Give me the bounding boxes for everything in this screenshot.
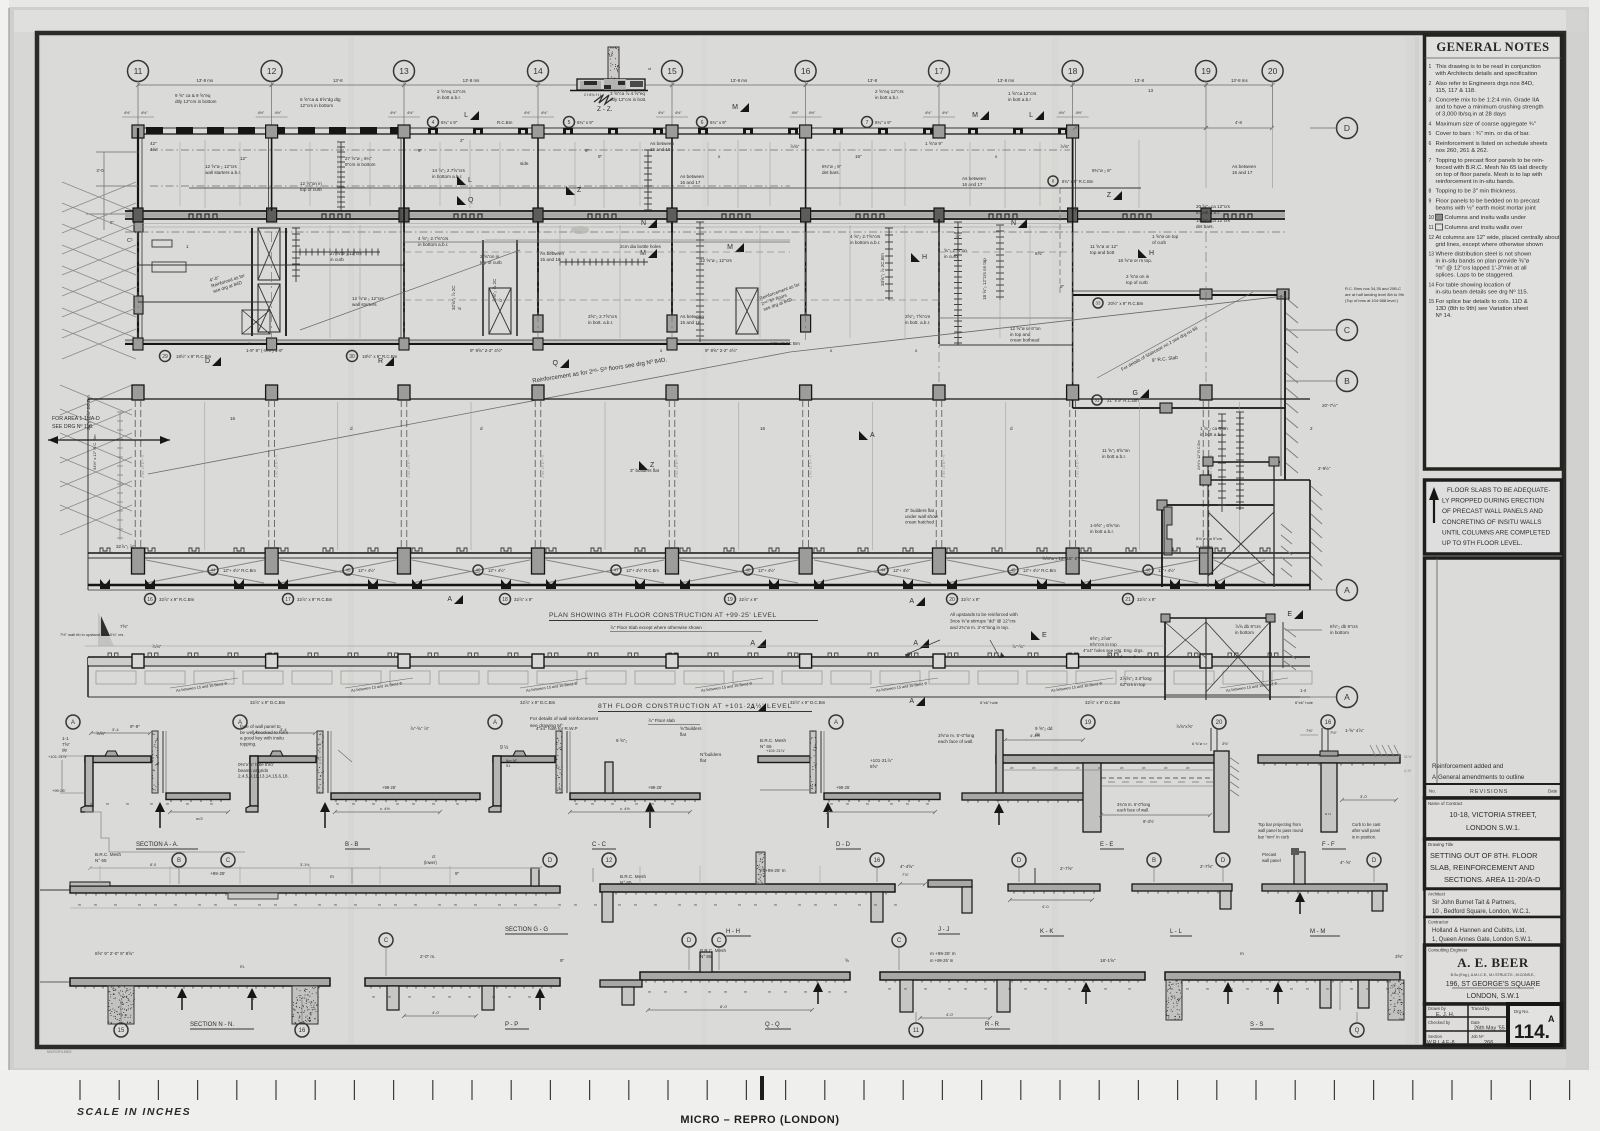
svg-text:12 ⅝"ø or 6"on: 12 ⅝"ø or 6"on <box>1010 326 1041 331</box>
columns on beam band <box>133 208 143 222</box>
svg-text:Columns and insitu walls over: Columns and insitu walls over <box>1445 225 1523 231</box>
svg-text:Top bar projecting from: Top bar projecting from <box>1258 822 1301 827</box>
svg-text:7⅝": 7⅝" <box>120 624 128 629</box>
svg-text:m: m <box>798 903 801 907</box>
grid bubble 19 <box>1196 61 1217 82</box>
svg-text:cb: cb <box>1054 766 1058 770</box>
section B-B drawing <box>246 727 480 828</box>
svg-text:m: m <box>372 995 375 999</box>
svg-text:m: m <box>874 903 877 907</box>
svg-text:9": 9" <box>598 154 603 159</box>
svg-text:a good key with insitu: a good key with insitu <box>240 736 284 741</box>
svg-text:5: 5 <box>1429 131 1432 137</box>
svg-text:13D (8th to 9th) see Variation: 13D (8th to 9th) see Variation sheet <box>1436 306 1529 312</box>
svg-text:3'-0: 3'-0 <box>96 168 104 173</box>
svg-text:Topping to precast floor panel: Topping to precast floor panels to be re… <box>1436 158 1544 164</box>
svg-text:15 and 16: 15 and 16 <box>540 257 561 262</box>
svg-text:in bott a.b.r.: in bott a.b.r. <box>437 95 461 100</box>
svg-text:7⅞": 7⅞" <box>902 872 910 877</box>
svg-text:18 ⅝"ø or rs top.: 18 ⅝"ø or rs top. <box>1118 258 1152 263</box>
for area note <box>52 416 100 430</box>
grid bubble 14 <box>528 61 549 82</box>
svg-text:4½": 4½" <box>1059 111 1066 115</box>
svg-text:D: D <box>1344 123 1350 133</box>
svg-text:Cover to bars : ¾" min. or dia: Cover to bars : ¾" min. or dia of bar. <box>1436 131 1531 137</box>
svg-text:m: m <box>438 903 441 907</box>
svg-text:L - L: L - L <box>1170 929 1182 935</box>
section A-A drawing <box>48 727 245 852</box>
svg-text:m: m <box>804 990 807 994</box>
grid bubble 44 <box>878 565 888 575</box>
grid bubble 33 <box>1093 298 1103 308</box>
svg-text:B.Sc.(Eng.), A.M.I.C.E., M.I.S: B.Sc.(Eng.), A.M.I.C.E., M.I.STRUCT.E., … <box>1451 973 1536 977</box>
svg-text:N° 65: N° 65 <box>700 954 712 959</box>
svg-text:m: m <box>594 903 597 907</box>
svg-text:20: 20 <box>1216 720 1223 726</box>
svg-text:+101·21⅞": +101·21⅞" <box>870 758 893 763</box>
svg-text:9": 9" <box>560 958 565 963</box>
svg-text:m: m <box>448 995 451 999</box>
section D-D drawing <box>758 731 940 828</box>
svg-text:m: m <box>114 903 117 907</box>
interior walls grids 14-16 <box>537 138 539 208</box>
svg-text:As between: As between <box>962 176 986 181</box>
grid bubble C <box>221 853 235 867</box>
svg-text:beams at grids: beams at grids <box>238 768 269 773</box>
svg-text:3'-1½: 3'-1½ <box>300 863 310 867</box>
svg-text:E. J. H.: E. J. H. <box>1436 1012 1455 1018</box>
svg-text:m: m <box>330 874 334 879</box>
svg-text:9" 9⅝" 2-2" 4½": 9" 9⅝" 2-2" 4½" <box>470 347 503 353</box>
svg-text:⅞": ⅞" <box>955 234 961 239</box>
grid bubble 4 <box>428 117 439 128</box>
svg-text:A: A <box>909 698 914 705</box>
svg-text:MICRO – REPRO (LONDON): MICRO – REPRO (LONDON) <box>680 1114 839 1126</box>
svg-text:11: 11 <box>913 1028 920 1034</box>
svg-text:H: H <box>1149 250 1154 257</box>
svg-text:For splice bar details to cols: For splice bar details to cols. 11D & <box>1436 299 1528 305</box>
svg-text:5: 5 <box>568 120 571 126</box>
svg-text:m: m <box>634 903 637 907</box>
svg-text:m/2: m/2 <box>196 816 203 821</box>
svg-text:32⅞" x 9" D.C.Bm: 32⅞" x 9" D.C.Bm <box>790 700 826 705</box>
svg-text:2cm dia bottle holes: 2cm dia bottle holes <box>620 244 662 249</box>
svg-text:A: A <box>493 720 497 726</box>
svg-text:4"-4⅝": 4"-4⅝" <box>900 864 914 869</box>
svg-text:2'-7⅝": 2'-7⅝" <box>1060 866 1073 871</box>
svg-text:m: m <box>906 802 909 806</box>
svg-text:m: m <box>834 903 837 907</box>
section J-J drawing <box>898 872 972 913</box>
svg-text:30: 30 <box>349 354 355 360</box>
svg-text:3⅝"₂ 2.7⅝"crs: 3⅝"₂ 2.7⅝"crs <box>588 314 618 319</box>
svg-text:Where distribution steel is no: Where distribution steel is not shown <box>1436 252 1532 258</box>
svg-text:2 no 16 b + ½: 2 no 16 b + ½ <box>809 454 813 478</box>
svg-text:cb: cb <box>1098 766 1102 770</box>
svg-text:m: m <box>888 987 891 991</box>
svg-text:11 ⅝"₂ 6⅝"on: 11 ⅝"₂ 6⅝"on <box>1102 448 1130 453</box>
section cut flag E <box>1287 610 1303 619</box>
svg-text:m: m <box>94 903 97 907</box>
svg-text:m: m <box>904 987 907 991</box>
grid bubble 44 <box>208 565 218 575</box>
svg-text:m: m <box>684 990 687 994</box>
grid bubble 46 <box>1143 565 1153 575</box>
svg-text:m: m <box>814 903 817 907</box>
svg-text:m: m <box>474 903 477 907</box>
svg-text:m: m <box>708 990 711 994</box>
svg-text:2 ⅝"ø on in: 2 ⅝"ø on in <box>1126 274 1150 279</box>
svg-text:B.R.C. Mesh: B.R.C. Mesh <box>95 852 121 857</box>
svg-text:m: m <box>492 995 495 999</box>
svg-text:13'-8 ms: 13'-8 ms <box>1231 78 1249 83</box>
svg-text:splices. Laps to be staggere: splices. Laps to be staggered. <box>1436 273 1515 279</box>
svg-text:m.: m. <box>240 964 245 969</box>
svg-text:Topping to be 3" min thickness: Topping to be 3" min thickness. <box>1436 189 1518 195</box>
svg-text:SECTION N - N.: SECTION N - N. <box>190 1022 234 1028</box>
svg-text:1: 1 <box>186 244 189 249</box>
svg-text:CONCRETING OF INSITU WALLS: CONCRETING OF INSITU WALLS <box>1442 519 1542 526</box>
small stub pairs above band <box>100 548 110 553</box>
svg-text:12"+ 4½": 12"+ 4½" <box>358 568 376 573</box>
svg-text:UNTIL COLUMNS ARE COMPLETED: UNTIL COLUMNS ARE COMPLETED <box>1442 529 1550 536</box>
svg-text:m: m <box>1306 987 1309 991</box>
svg-text:⅞" Floor slab: ⅞" Floor slab <box>648 718 675 723</box>
support arrow <box>535 988 545 998</box>
svg-text:de: de <box>1035 732 1041 737</box>
svg-text:9": 9" <box>455 871 460 876</box>
section cut flag Q <box>553 359 569 368</box>
svg-text:m: m <box>714 903 717 907</box>
svg-text:4 ⅝"₂ 2.7⅝"crs: 4 ⅝"₂ 2.7⅝"crs <box>850 234 881 239</box>
svg-text:M: M <box>727 244 733 251</box>
svg-text:16: 16 <box>801 66 811 76</box>
svg-text:12 ⅝"ø ₂ 12"crs: 12 ⅝"ø ₂ 12"crs <box>352 296 385 301</box>
extra clutter round 2 <box>150 141 158 152</box>
svg-text:m: m <box>924 987 927 991</box>
svg-text:FOR AREA 1-11/A-D: FOR AREA 1-11/A-D <box>52 416 100 422</box>
svg-text:Contractor: Contractor <box>1428 920 1449 925</box>
svg-text:+99·25': +99·25' <box>836 785 850 790</box>
svg-text:44: 44 <box>880 568 886 573</box>
svg-text:m: m <box>1326 987 1329 991</box>
svg-text:1-⅝" 4⅞": 1-⅝" 4⅞" <box>1345 728 1364 733</box>
svg-text:All upstands to be reinforced: All upstands to be reinforced with <box>950 612 1018 617</box>
svg-text:13: 13 <box>1148 88 1154 93</box>
svg-text:m: m <box>926 802 929 806</box>
svg-text:As between: As between <box>680 314 704 319</box>
dim line right of plan top <box>1075 127 1206 129</box>
svg-text:c. 4½: c. 4½ <box>620 806 630 811</box>
svg-text:side: side <box>520 161 529 166</box>
svg-text:in bottom a.b.r.: in bottom a.b.r. <box>850 240 880 245</box>
svg-text:m: m <box>768 990 771 994</box>
svg-text:32⅞" x 9" R.C.Bm: 32⅞" x 9" R.C.Bm <box>159 597 195 602</box>
svg-text:4½": 4½" <box>407 111 414 115</box>
svg-text:m: m <box>336 802 339 806</box>
svg-text:13'-8: 13'-8 <box>333 78 343 83</box>
svg-text:m: m <box>1170 987 1173 991</box>
svg-text:flat: flat <box>700 758 707 763</box>
svg-text:8⅝": 8⅝" <box>1035 251 1043 256</box>
svg-text:19: 19 <box>1085 720 1092 726</box>
svg-text:13'-8 ms: 13'-8 ms <box>730 78 748 83</box>
svg-text:Architect: Architect <box>1428 892 1446 897</box>
svg-text:+99·25': +99·25' <box>382 785 396 790</box>
grid bubble 6 <box>697 117 708 128</box>
svg-text:3 ⅝"ca ⅞ 4.⅝"eq: 3 ⅝"ca ⅞ 4.⅝"eq <box>610 91 645 96</box>
svg-text:⅞⅝": ⅞⅝" <box>152 644 162 649</box>
svg-text:1 ⅝"ø 9": 1 ⅝"ø 9" <box>925 141 943 146</box>
svg-text:8⅝" 9" 2'-0" 9" 8⅝": 8⅝" 9" 2'-0" 9" 8⅝" <box>95 951 134 956</box>
svg-text:topping.: topping. <box>240 741 256 746</box>
svg-text:de: de <box>62 748 68 753</box>
svg-text:is in position.: is in position. <box>1352 834 1376 839</box>
svg-text:1 ⅝"ca 12"crs: 1 ⅝"ca 12"crs <box>1008 91 1037 96</box>
svg-text:D: D <box>1017 858 1022 864</box>
svg-text:M - M: M - M <box>1310 929 1325 935</box>
svg-text:in bottom: in bottom <box>1330 630 1349 635</box>
svg-text:B: B <box>1152 858 1156 864</box>
svg-text:16: 16 <box>760 426 766 431</box>
svg-text:8¾" x 9": 8¾" x 9" <box>441 120 458 125</box>
svg-text:32⅞" x 9": 32⅞" x 9" <box>1137 597 1156 602</box>
svg-text:Z - Z.: Z - Z. <box>597 106 613 113</box>
svg-text:32⅞" x 9": 32⅞" x 9" <box>739 597 758 602</box>
svg-text:LONDON, S.W.1: LONDON, S.W.1 <box>1467 993 1520 1000</box>
svg-text:12"+ 4½": 12"+ 4½" <box>1158 568 1176 573</box>
grid bubble D <box>1216 853 1230 867</box>
section G-G drawing <box>40 854 560 908</box>
svg-text:in bottom a.b.r.: in bottom a.b.r. <box>418 242 448 247</box>
grid bubble 16 <box>795 61 816 82</box>
grid bubble 30 <box>347 351 358 362</box>
svg-text:32⅞" x 9": 32⅞" x 9" <box>514 597 533 602</box>
grid bubble B <box>1337 371 1358 392</box>
svg-text:16 and 17: 16 and 17 <box>680 180 701 185</box>
svg-text:⅞"-⅝" ⅞": ⅞"-⅝" ⅞" <box>410 726 430 731</box>
svg-text:13: 13 <box>1429 252 1435 258</box>
section cut flag Z <box>566 186 582 195</box>
support arrow <box>1273 982 1283 992</box>
svg-text:N° 65: N° 65 <box>760 744 772 749</box>
grid bubble 7 <box>862 117 873 128</box>
svg-text:4'-0: 4'-0 <box>1042 904 1049 909</box>
svg-text:16: 16 <box>874 858 881 864</box>
svg-text:LONDON S.W.1.: LONDON S.W.1. <box>1466 823 1520 832</box>
top external wall (dashed heavy) <box>138 127 1075 134</box>
grid 18 wall lower <box>1072 211 1074 408</box>
svg-text:A: A <box>834 720 838 726</box>
svg-text:GENERAL NOTES: GENERAL NOTES <box>1436 40 1549 54</box>
grid bubble 18 <box>1062 61 1083 82</box>
svg-text:⅝: ⅝ <box>845 958 849 963</box>
leader arrows along strip2 <box>170 678 238 688</box>
svg-text:flat: flat <box>680 732 687 737</box>
svg-text:8¾"ø dia 9"crs: 8¾"ø dia 9"crs <box>1196 536 1222 541</box>
grid bubble 16 <box>145 594 156 605</box>
svg-text:11: 11 <box>134 66 143 76</box>
svg-text:C: C <box>717 938 722 944</box>
svg-text:13'-8: 13'-8 <box>1134 78 1144 83</box>
svg-text:dtly 12"crs in bottom: dtly 12"crs in bottom <box>175 99 217 104</box>
svg-text:B: B <box>1344 376 1350 386</box>
svg-text:16: 16 <box>230 416 236 421</box>
contractor box <box>1425 917 1562 945</box>
svg-text:m: m <box>352 802 355 806</box>
svg-text:1-9⅝" ₂ 6⅝"on: 1-9⅝" ₂ 6⅝"on <box>1090 523 1120 528</box>
hatch area lower-left <box>60 385 132 535</box>
section cut flag Z <box>1107 191 1122 200</box>
svg-text:11 ⅝"ø or 12": 11 ⅝"ø or 12" <box>1090 244 1118 249</box>
svg-text:For details of wall reinforcem: For details of wall reinforcement <box>530 716 599 722</box>
svg-text:are at half landing level 8th: are at half landing level 8th to 9th <box>1345 292 1404 297</box>
grid bubble 15 <box>662 61 683 82</box>
grid bubble 45 <box>1008 565 1018 575</box>
wall grid 18 <box>1072 138 1074 211</box>
svg-text:As between: As between <box>540 251 564 256</box>
svg-text:in curb: in curb <box>944 254 958 259</box>
grid line 20 <box>1272 81 1274 128</box>
svg-text:13: 13 <box>399 66 409 76</box>
svg-text:45: 45 <box>1010 568 1016 573</box>
svg-text:18: 18 <box>502 597 508 603</box>
svg-text:12"+ 4½" R.C.Bm: 12"+ 4½" R.C.Bm <box>626 568 659 573</box>
svg-text:m: m <box>1240 951 1244 956</box>
svg-text:M: M <box>972 112 978 119</box>
svg-text:m: m <box>894 903 897 907</box>
svg-text:wall starters: wall starters <box>352 302 377 307</box>
svg-text:R: R <box>378 358 383 365</box>
svg-text:8⅝": 8⅝" <box>870 764 878 769</box>
svg-text:8¾" x 9": 8¾" x 9" <box>875 120 892 125</box>
columns at band <box>132 548 145 574</box>
section cut flag G <box>1133 389 1149 398</box>
svg-text:4"x4" holes see Htg. Eng. drg: 4"x4" holes see Htg. Eng. drgs. <box>1083 648 1144 653</box>
support arrow <box>1295 892 1305 902</box>
svg-text:crean hatched: crean hatched <box>905 520 935 525</box>
svg-text:12"+ 4½": 12"+ 4½" <box>758 568 776 573</box>
svg-text:9 ⅝" ca & 9 ⅝"eq: 9 ⅝" ca & 9 ⅝"eq <box>175 93 211 98</box>
svg-text:m: m <box>498 903 501 907</box>
strip plan columns <box>132 654 144 668</box>
svg-text:D: D <box>548 858 553 864</box>
svg-text:in bott a.b.r.: in bott a.b.r. <box>875 95 899 100</box>
svg-text:in bott. a.b.r.: in bott. a.b.r. <box>905 320 930 325</box>
svg-text:7: 7 <box>1429 158 1432 164</box>
svg-text:11: 11 <box>1429 225 1434 231</box>
svg-text:2: 2 <box>1429 81 1432 87</box>
svg-text:FLOOR SLABS TO BE ADEQUATE-: FLOOR SLABS TO BE ADEQUATE- <box>1447 487 1550 494</box>
all upstands note <box>950 612 1018 630</box>
svg-text:wall panel: wall panel <box>1262 858 1281 863</box>
svg-text:m: m <box>106 802 109 806</box>
support arrow <box>1223 982 1233 992</box>
svg-text:3nos ⅜"ø stirrups "dd" @ 12: 3nos ⅜"ø stirrups "dd" @ 12"crs <box>950 619 1016 624</box>
svg-text:wall panel to pass round: wall panel to pass round <box>1258 828 1304 833</box>
svg-text:B - B: B - B <box>345 842 358 848</box>
svg-text:L: L <box>464 112 468 119</box>
svg-text:4: 4 <box>1429 121 1432 127</box>
svg-text:m: m <box>1266 987 1269 991</box>
section cut flag N <box>1011 219 1027 228</box>
svg-text:⅞⅝"x⅝": ⅞⅝"x⅝" <box>1176 724 1193 729</box>
section cut flag A <box>447 595 463 604</box>
svg-text:8⅝"₂ db 9"crs: 8⅝"₂ db 9"crs <box>1330 624 1358 629</box>
grid line 18 <box>1072 81 1074 128</box>
svg-text:grid lines, except where other: grid lines, except where otherwise shown <box>1436 242 1543 248</box>
svg-text:m: m <box>671 802 674 806</box>
svg-text:32⅞" x 9" D.C.Bm: 32⅞" x 9" D.C.Bm <box>250 700 286 705</box>
second diagonal annotation left block <box>300 250 520 330</box>
svg-text:+101·21⅞': +101·21⅞' <box>48 754 67 759</box>
top-right short beam y=188 <box>1060 187 1141 189</box>
svg-text:12: 12 <box>267 66 277 76</box>
section Q-Q drawing <box>600 952 850 1012</box>
svg-text:2 no 16 b + ½: 2 no 16 b + ½ <box>942 454 946 478</box>
svg-text:and 2¾"ø m. 3'-6"long in to: and 2¾"ø m. 3'-6"long in top. <box>950 625 1009 630</box>
crease left of notes panel <box>1415 37 1419 1044</box>
svg-text:3'-0': 3'-0' <box>1360 794 1368 799</box>
svg-text:3: 3 <box>1429 98 1432 104</box>
drawing number box 114A <box>1508 1004 1562 1045</box>
right building edge x=1285 with hatch <box>1284 291 1286 480</box>
svg-text:2 ⅝"eq 12"crs: 2 ⅝"eq 12"crs <box>437 89 466 94</box>
svg-text:crean bothead: crean bothead <box>1010 338 1040 343</box>
svg-text:3⅝"ø m. 5'-0"long: 3⅝"ø m. 5'-0"long <box>938 733 975 738</box>
svg-text:This drawing is to be read in: This drawing is to be read in conjunctio… <box>1436 64 1541 70</box>
dashed vertical x=1060 upper right <box>1059 188 1061 295</box>
svg-text:m: m <box>830 802 833 806</box>
extra upper-bay vertical dims <box>179 142 181 206</box>
section cut flag Z <box>639 461 655 470</box>
interior horizontal partitions upper-left <box>138 264 404 266</box>
svg-text:m: m <box>1084 987 1087 991</box>
svg-text:15: 15 <box>667 66 677 76</box>
svg-text:27 ⅝"ø ₂ 12"crs: 27 ⅝"ø ₂ 12"crs <box>330 251 363 256</box>
svg-text:16 and 17: 16 and 17 <box>1232 170 1253 175</box>
svg-text:8¾" x 9": 8¾" x 9" <box>710 120 727 125</box>
svg-text:34½" x 12" R.C. Bm: 34½" x 12" R.C. Bm <box>92 434 97 470</box>
svg-text:17: 17 <box>934 66 944 76</box>
svg-text:8¾"ø ₂ 9": 8¾"ø ₂ 9" <box>1092 168 1112 173</box>
svg-text:3⅝"₂ 7⅝"crs: 3⅝"₂ 7⅝"crs <box>905 314 931 319</box>
svg-text:12": 12" <box>240 156 247 161</box>
svg-text:9'-3½': 9'-3½' <box>1143 819 1154 824</box>
grid line 11 <box>137 81 139 128</box>
beam y=408 right <box>1073 407 1285 409</box>
svg-text:⅞⅝": ⅞⅝" <box>96 731 106 736</box>
svg-text:m: m <box>1186 987 1189 991</box>
architect box <box>1425 889 1562 917</box>
svg-text:m: m <box>372 802 375 806</box>
strip plan top chord <box>88 656 1310 658</box>
svg-text:m: m <box>654 903 657 907</box>
svg-text:2,4,5,9,11,13,14,15,6,18.: 2,4,5,9,11,13,14,15,6,18. <box>238 774 289 779</box>
svg-text:9 ½: 9 ½ <box>500 744 509 751</box>
grid bubble 13 <box>394 61 415 82</box>
scale ruler ticks <box>80 1076 1570 1100</box>
svg-text:2": 2" <box>460 138 465 143</box>
svg-text:D: D <box>687 938 692 944</box>
svg-text:in bott a.b.r.: in bott a.b.r. <box>1090 529 1114 534</box>
svg-text:C: C <box>897 938 902 944</box>
section cut flag M <box>732 103 749 112</box>
svg-text:13'-8 ms: 13'-8 ms <box>463 78 481 83</box>
svg-text:Date: Date <box>1471 1020 1481 1025</box>
svg-text:m: m <box>456 802 459 806</box>
grid line 14 <box>537 81 539 128</box>
